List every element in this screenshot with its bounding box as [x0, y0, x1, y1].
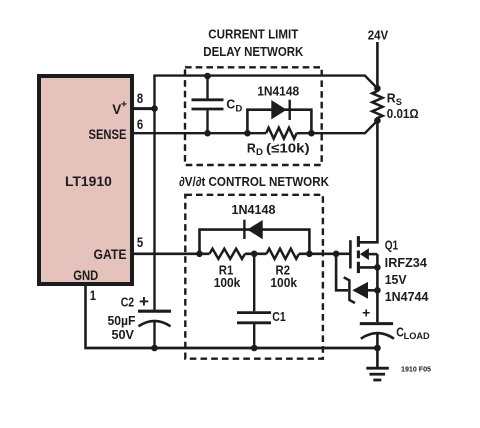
transistor Q1 gate bar	[349, 240, 352, 268]
svg-text:15V: 15V	[385, 273, 408, 287]
IC U1 LT1910 body	[39, 76, 132, 284]
svg-text:+: +	[121, 99, 127, 111]
wire: 24V supply drop	[376, 42, 379, 88]
wire: GND pin 1 drop	[84, 284, 87, 347]
wire: source vertical down to CLOAD	[376, 254, 379, 322]
wire: V+ pin 8 stub	[131, 107, 155, 110]
wire: D2 bypass loop	[200, 230, 310, 254]
wire: GATE rail pin 5 to Q1 gate	[131, 253, 350, 256]
resistor R1 (horizontal zigzag)	[210, 249, 246, 259]
wire: SENSE rail to RS bottom with diagonal	[131, 121, 377, 134]
svg-text:1N4148: 1N4148	[232, 203, 276, 217]
zener D3 triangle (pointing left)	[352, 282, 368, 299]
svg-text:1N4148: 1N4148	[257, 85, 299, 99]
wire: CLOAD bottom lead	[376, 334, 379, 348]
node: R1 left dot	[196, 251, 203, 258]
node: zener dot	[374, 287, 381, 294]
wire: D1 bypass loop	[247, 110, 311, 134]
capacitor CLOAD curved plate	[361, 333, 394, 339]
node: RS top dot	[374, 85, 381, 92]
node: RS bottom dot	[374, 117, 381, 124]
diode D2 1N4148 triangle (pointing left)	[247, 220, 263, 239]
transistor Q1 drain wire from RS	[359, 121, 378, 243]
svg-text:D: D	[235, 104, 242, 115]
pin label V+	[112, 99, 127, 117]
svg-text:8: 8	[137, 90, 143, 106]
node: R1/R2 middle dot	[251, 251, 258, 258]
dashed box: dV/dt control network	[185, 195, 323, 359]
svg-text:100k: 100k	[270, 276, 297, 290]
label: RD (<=10k)	[247, 141, 310, 158]
svg-text:1N4744: 1N4744	[385, 290, 429, 304]
capacitor CD leads	[206, 76, 208, 133]
capacitor C1 plates	[237, 313, 271, 323]
node: CLOAD ground rail dot	[374, 345, 381, 352]
svg-text:SENSE: SENSE	[89, 126, 127, 142]
svg-text:C1: C1	[272, 309, 286, 324]
node: CD top dot	[204, 73, 211, 80]
wire: bottom ground rail	[84, 347, 377, 350]
node: RD left dot	[244, 130, 251, 137]
resistor R2 (horizontal zigzag)	[267, 249, 300, 259]
svg-text:∂V/∂t CONTROL NETWORK: ∂V/∂t CONTROL NETWORK	[179, 174, 330, 189]
transistor Q1 source lead	[359, 266, 378, 269]
svg-text:CURRENT LIMIT: CURRENT LIMIT	[208, 26, 298, 41]
diode D1 1N4148 triangle (pointing right)	[271, 100, 286, 119]
svg-text:+: +	[362, 305, 370, 321]
svg-text:GATE: GATE	[94, 246, 127, 262]
zener D3 1N4744 bar with ticks	[344, 277, 355, 303]
node: C1 bottom rail dot	[251, 345, 258, 352]
svg-text:0.01Ω: 0.01Ω	[387, 106, 419, 121]
svg-text:100k: 100k	[214, 276, 241, 290]
svg-text:GND: GND	[73, 267, 98, 283]
wire: V+ vertical riser and C2 feed	[153, 76, 155, 348]
transistor Q1 channel bar (3 segments)	[357, 236, 360, 273]
svg-text:DELAY NETWORK: DELAY NETWORK	[203, 44, 304, 59]
dashed box: current limit delay network	[185, 67, 322, 165]
svg-text:(≤10k): (≤10k)	[266, 141, 310, 156]
transistor Q1 body lead	[368, 253, 377, 256]
diode D1 cathode bar	[289, 100, 291, 120]
capacitor CD plates	[192, 100, 224, 109]
svg-text:C2: C2	[121, 296, 134, 310]
capacitor C2 flat plate	[138, 310, 171, 313]
capacitor C2 curved plate	[139, 321, 171, 326]
svg-text:R: R	[247, 141, 256, 156]
resistor RD (horizontal zigzag)	[266, 128, 297, 139]
ground symbol	[366, 348, 389, 380]
node: R2 right dot	[306, 251, 313, 258]
svg-text:1: 1	[90, 287, 96, 303]
wire: zener branch from gate	[336, 254, 348, 290]
title: CURRENT LIMIT DELAY NETWORK	[203, 26, 304, 58]
svg-text:LT1910: LT1910	[65, 173, 112, 189]
svg-text:R: R	[387, 91, 396, 106]
node: CD bottom dot	[204, 130, 211, 137]
label: CD	[226, 97, 242, 115]
svg-text:C: C	[226, 97, 235, 112]
resistor RS (vertical zigzag)	[372, 88, 382, 120]
svg-text:50µF: 50µF	[108, 314, 136, 328]
svg-text:IRFZ34: IRFZ34	[385, 256, 427, 270]
node: source dot	[374, 264, 381, 271]
svg-text:50V: 50V	[112, 328, 135, 342]
svg-text:1910 F05: 1910 F05	[401, 364, 431, 373]
label: RS	[387, 91, 402, 108]
node: V+ junction dot	[151, 105, 158, 112]
svg-text:24V: 24V	[368, 28, 389, 43]
node: gate/zener junction dot	[333, 251, 340, 258]
transistor Q1 body arrow	[360, 248, 369, 260]
capacitor CLOAD flat plate	[360, 322, 393, 325]
svg-text:Q1: Q1	[385, 239, 399, 253]
node: RD right dot	[308, 130, 315, 137]
zener D3 anode lead	[368, 289, 378, 292]
svg-text:6: 6	[137, 116, 143, 132]
svg-text:D: D	[256, 147, 263, 158]
label: CLOAD	[396, 325, 430, 341]
diode D2 cathode bar	[243, 220, 245, 239]
svg-text:5: 5	[137, 234, 143, 250]
svg-text:LOAD: LOAD	[404, 331, 431, 341]
capacitor C1 leads	[253, 254, 255, 348]
node: C2 bottom rail dot	[151, 345, 158, 352]
wire: top rail V+ to RS with diagonal	[153, 76, 377, 89]
svg-text:+: +	[139, 292, 149, 311]
